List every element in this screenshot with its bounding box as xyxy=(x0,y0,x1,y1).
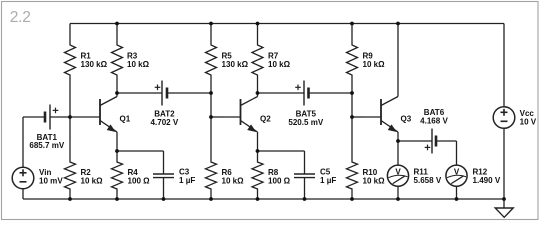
svg-text:1.490 V: 1.490 V xyxy=(473,176,501,185)
node bottom rail R2 xyxy=(68,197,72,201)
resistor R5 xyxy=(206,24,249,118)
node Q1 emitter xyxy=(115,149,119,153)
node top rail Q3 collector xyxy=(396,22,400,26)
svg-text:Q3: Q3 xyxy=(401,115,412,124)
svg-text:10 kΩ: 10 kΩ xyxy=(268,60,291,69)
node bottom rail R11 xyxy=(396,197,400,201)
svg-text:1 µF: 1 µF xyxy=(320,176,336,185)
resistor R8 xyxy=(252,151,291,199)
svg-text:10 mV: 10 mV xyxy=(39,176,63,185)
wire top rail xyxy=(70,23,504,25)
svg-text:130 kΩ: 130 kΩ xyxy=(222,60,249,69)
node Q1 base xyxy=(68,115,72,119)
resistor R3 xyxy=(112,24,150,94)
voltage source Vin xyxy=(12,117,63,199)
node Q3 base xyxy=(350,115,354,119)
node bottom rail C5 xyxy=(303,197,307,201)
resistor R9 xyxy=(347,24,386,118)
svg-text:Q2: Q2 xyxy=(260,115,271,124)
voltmeter R11 xyxy=(387,141,441,199)
svg-text:10 kΩ: 10 kΩ xyxy=(363,60,386,69)
node top rail R3 xyxy=(115,22,119,26)
transistor Q3 xyxy=(381,24,412,142)
battery BAT5 xyxy=(258,81,353,128)
node bottom rail R8 xyxy=(256,197,260,201)
svg-text:1 µF: 1 µF xyxy=(179,176,195,185)
svg-text:520.5 mV: 520.5 mV xyxy=(288,118,324,127)
node Q2 collector xyxy=(256,91,260,95)
transistor Q1 xyxy=(100,93,131,151)
svg-text:130 kΩ: 130 kΩ xyxy=(81,60,108,69)
ground xyxy=(495,199,513,217)
resistor R1 xyxy=(65,24,108,118)
wire Q3 base xyxy=(352,116,381,118)
node BAT5-R9 xyxy=(350,91,354,95)
svg-text:2.2: 2.2 xyxy=(10,9,31,26)
svg-text:4.702 V: 4.702 V xyxy=(151,118,179,127)
svg-text:100 Ω: 100 Ω xyxy=(128,176,151,185)
node BAT2-R5 xyxy=(209,91,213,95)
voltmeter R12 xyxy=(446,141,501,199)
resistor R6 xyxy=(206,117,245,199)
battery BAT1 xyxy=(23,105,100,151)
node bottom rail R4 xyxy=(115,197,119,201)
capacitor C5 xyxy=(294,151,336,199)
svg-text:10 kΩ: 10 kΩ xyxy=(127,60,150,69)
node Q2 emitter xyxy=(256,149,260,153)
battery BAT2 xyxy=(117,81,211,128)
battery BAT6 xyxy=(398,108,457,153)
svg-text:10 kΩ: 10 kΩ xyxy=(222,176,245,185)
resistor R7 xyxy=(252,24,291,94)
resistor R2 xyxy=(65,117,104,199)
svg-text:10 kΩ: 10 kΩ xyxy=(363,176,386,185)
resistor R10 xyxy=(347,117,386,199)
node bottom rail R10 xyxy=(350,197,354,201)
wire Q1 emitter to C3 xyxy=(117,150,164,152)
voltage source Vcc xyxy=(493,24,537,200)
wire Q2 base xyxy=(211,116,241,118)
node bottom rail C3 xyxy=(162,197,166,201)
svg-text:5.658 V: 5.658 V xyxy=(414,176,442,185)
node top rail R9 xyxy=(350,22,354,26)
node Q1 collector xyxy=(115,91,119,95)
svg-text:10 kΩ: 10 kΩ xyxy=(81,176,104,185)
node bottom rail R6 xyxy=(209,197,213,201)
wire bottom rail xyxy=(23,198,504,200)
svg-text:4.168 V: 4.168 V xyxy=(420,117,448,126)
svg-text:685.7 mV: 685.7 mV xyxy=(29,141,65,150)
node bottom rail ground xyxy=(502,197,506,201)
svg-text:Q1: Q1 xyxy=(120,115,131,124)
transistor Q2 xyxy=(241,93,272,151)
wire Q2 emitter to C5 xyxy=(258,150,305,152)
node bottom rail R12 xyxy=(455,197,459,201)
capacitor C3 xyxy=(153,151,195,199)
resistor R4 xyxy=(112,151,151,199)
node top rail R5 xyxy=(209,22,213,26)
node Q3 emitter xyxy=(396,139,400,143)
node Q2 base xyxy=(209,115,213,119)
node top rail R7 xyxy=(256,22,260,26)
svg-text:10 V: 10 V xyxy=(520,118,537,127)
svg-text:100 Ω: 100 Ω xyxy=(268,176,291,185)
